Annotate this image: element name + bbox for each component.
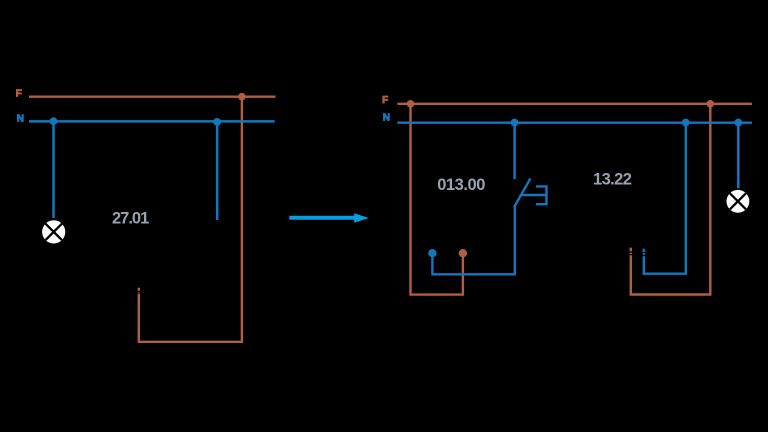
wire dashed end + arrow tip of 13.22 N loop [643,253,645,255]
lamp E2 [727,190,750,213]
svg-text:F: F [382,95,388,106]
wire pushbutton branch (blue from terminal to switch) [432,207,514,275]
wire switched-live loop (left, F to far end) [139,97,242,342]
wire F bus (left) [29,95,276,97]
svg-text:N: N [17,114,24,125]
node on N at 13.22 [682,119,690,127]
wire stub to relay (left) [216,121,219,220]
svg-text:013.00: 013.00 [437,176,485,194]
lamp E1 [42,220,65,243]
wire 13.22 live loop (orange) [631,104,711,295]
svg-text:N: N [383,113,390,124]
svg-text:F: F [16,89,22,100]
arrow (replace-with) [289,213,369,223]
wire lamp drop (right) [737,123,740,189]
wire dashed end of loop (left) [138,288,140,294]
node on F (left) [238,93,246,101]
pushbutton S1 upper wire [513,123,516,179]
wire N bus (right) [397,121,752,123]
svg-text:27.01: 27.01 [112,210,149,228]
wire N bus (left) [29,120,275,123]
terminal dot orange of 013.00 [459,249,467,257]
node on N at lamp drop (right) [734,119,742,127]
terminal dot blue of 013.00 [428,249,436,257]
svg-text:13.22: 13.22 [593,171,632,189]
wire 13.22 N loop (blue) [644,123,686,274]
wire dashed end of 13.22 live loop [630,248,632,256]
node on N at stub (left) [213,118,221,126]
node on N at pushbutton [511,119,519,127]
wire F bus (right) [397,103,752,105]
node on F at 013.00 (right) [407,100,415,108]
wire 013.00 supply loop (orange) [411,104,463,295]
wire lamp drop (left) [52,121,55,218]
pushbutton S1 blade [514,179,530,208]
node on N at lamp drop (left) [50,117,58,125]
node on F at 13.22 (right) [707,100,715,108]
pushbutton S1 actuator cap [521,186,546,204]
